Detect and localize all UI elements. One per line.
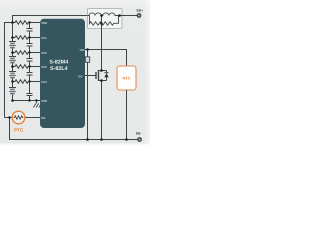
battery cell BT4: [9, 88, 16, 94]
svg-text:VDD: VDD: [41, 21, 48, 25]
wire EB+ lead: [122, 15, 137, 17]
node VC3 tap: [11, 65, 14, 68]
capacitor C2: [27, 38, 33, 53]
capacitor C1: [27, 23, 33, 38]
resistor R1 + wire VDD row: [13, 21, 41, 25]
svg-text:CO: CO: [78, 74, 83, 78]
wire left bus: [5, 23, 13, 118]
svg-text:VC2: VC2: [41, 51, 47, 55]
capacitor C3: [27, 53, 33, 67]
node drain: [100, 69, 103, 72]
wire VSS row: [13, 100, 41, 102]
capacitor C5: [27, 82, 33, 101]
wire drain from fuse to Q1: [101, 29, 103, 71]
svg-text:VC3: VC3: [41, 65, 47, 69]
node VC1 tap: [11, 36, 14, 39]
node source: [100, 79, 103, 82]
thermistor TH2 NTC box: [117, 66, 136, 90]
node VC4 tap: [11, 80, 14, 83]
capacitor C4: [27, 67, 33, 82]
node ground stem: [35, 99, 37, 101]
wire gate CO: [85, 75, 96, 77]
terminal EB-: [136, 131, 142, 141]
node cap joints: [28, 21, 30, 23]
svg-text:NTC: NTC: [123, 75, 131, 80]
svg-text:VC1: VC1: [41, 36, 47, 40]
svg-text:PTC: PTC: [14, 128, 24, 133]
fuse F1 box: [88, 9, 123, 29]
node VSS tap: [11, 99, 14, 102]
fuse element: [88, 13, 123, 16]
wire top B+ from stack to fuse: [13, 16, 88, 23]
heater resistor: [90, 16, 119, 26]
transistor Q1: [96, 70, 107, 81]
node B+ stack top: [11, 21, 14, 24]
node fuse mid: [100, 14, 103, 17]
node rail-source: [100, 138, 103, 141]
svg-text:VC4: VC4: [41, 80, 47, 84]
diode D1 body: [104, 71, 108, 81]
wire to bottom rail: [10, 118, 138, 140]
wire heater tap: [101, 16, 103, 29]
node VM-R1: [86, 48, 89, 51]
IC U1: [40, 19, 85, 128]
junction dots: [8, 14, 127, 141]
svg-text:VSS: VSS: [41, 99, 47, 103]
battery cell BT1: [9, 42, 16, 48]
resistor R3 + wire VC2 row: [13, 51, 41, 55]
svg-text:S-82M4: S-82M4: [49, 60, 68, 66]
node rail-R1: [86, 138, 89, 141]
wire NTC to rail: [126, 90, 128, 140]
wire VM net: [85, 50, 127, 67]
node rail-NTC: [125, 138, 128, 141]
svg-text:VM: VM: [80, 48, 85, 52]
svg-text:EB-: EB-: [136, 131, 142, 135]
resistor R5 + wire VC4 row: [13, 80, 41, 84]
node fuse right: [118, 14, 121, 17]
battery cell BT2: [9, 57, 16, 63]
resistor R2 + wire VC1 row: [13, 36, 41, 40]
node PTC left: [8, 116, 10, 118]
wire battery stack spine: [12, 16, 14, 101]
wire PTC row: [5, 117, 41, 119]
ground: [33, 101, 41, 108]
svg-text:CN: CN: [41, 116, 45, 120]
thermistor TH1 PTC: [12, 111, 25, 133]
wire source to rail: [101, 81, 103, 140]
resistor R6: [85, 50, 89, 140]
node VC2 tap: [11, 51, 14, 54]
resistor R4 + wire VC3 row: [13, 65, 41, 69]
svg-text:EB+: EB+: [136, 9, 143, 13]
battery cell BT3: [9, 72, 16, 78]
svg-text:S-82L4: S-82L4: [50, 66, 68, 72]
terminal EB+: [136, 9, 143, 18]
node heater mid: [100, 22, 103, 25]
